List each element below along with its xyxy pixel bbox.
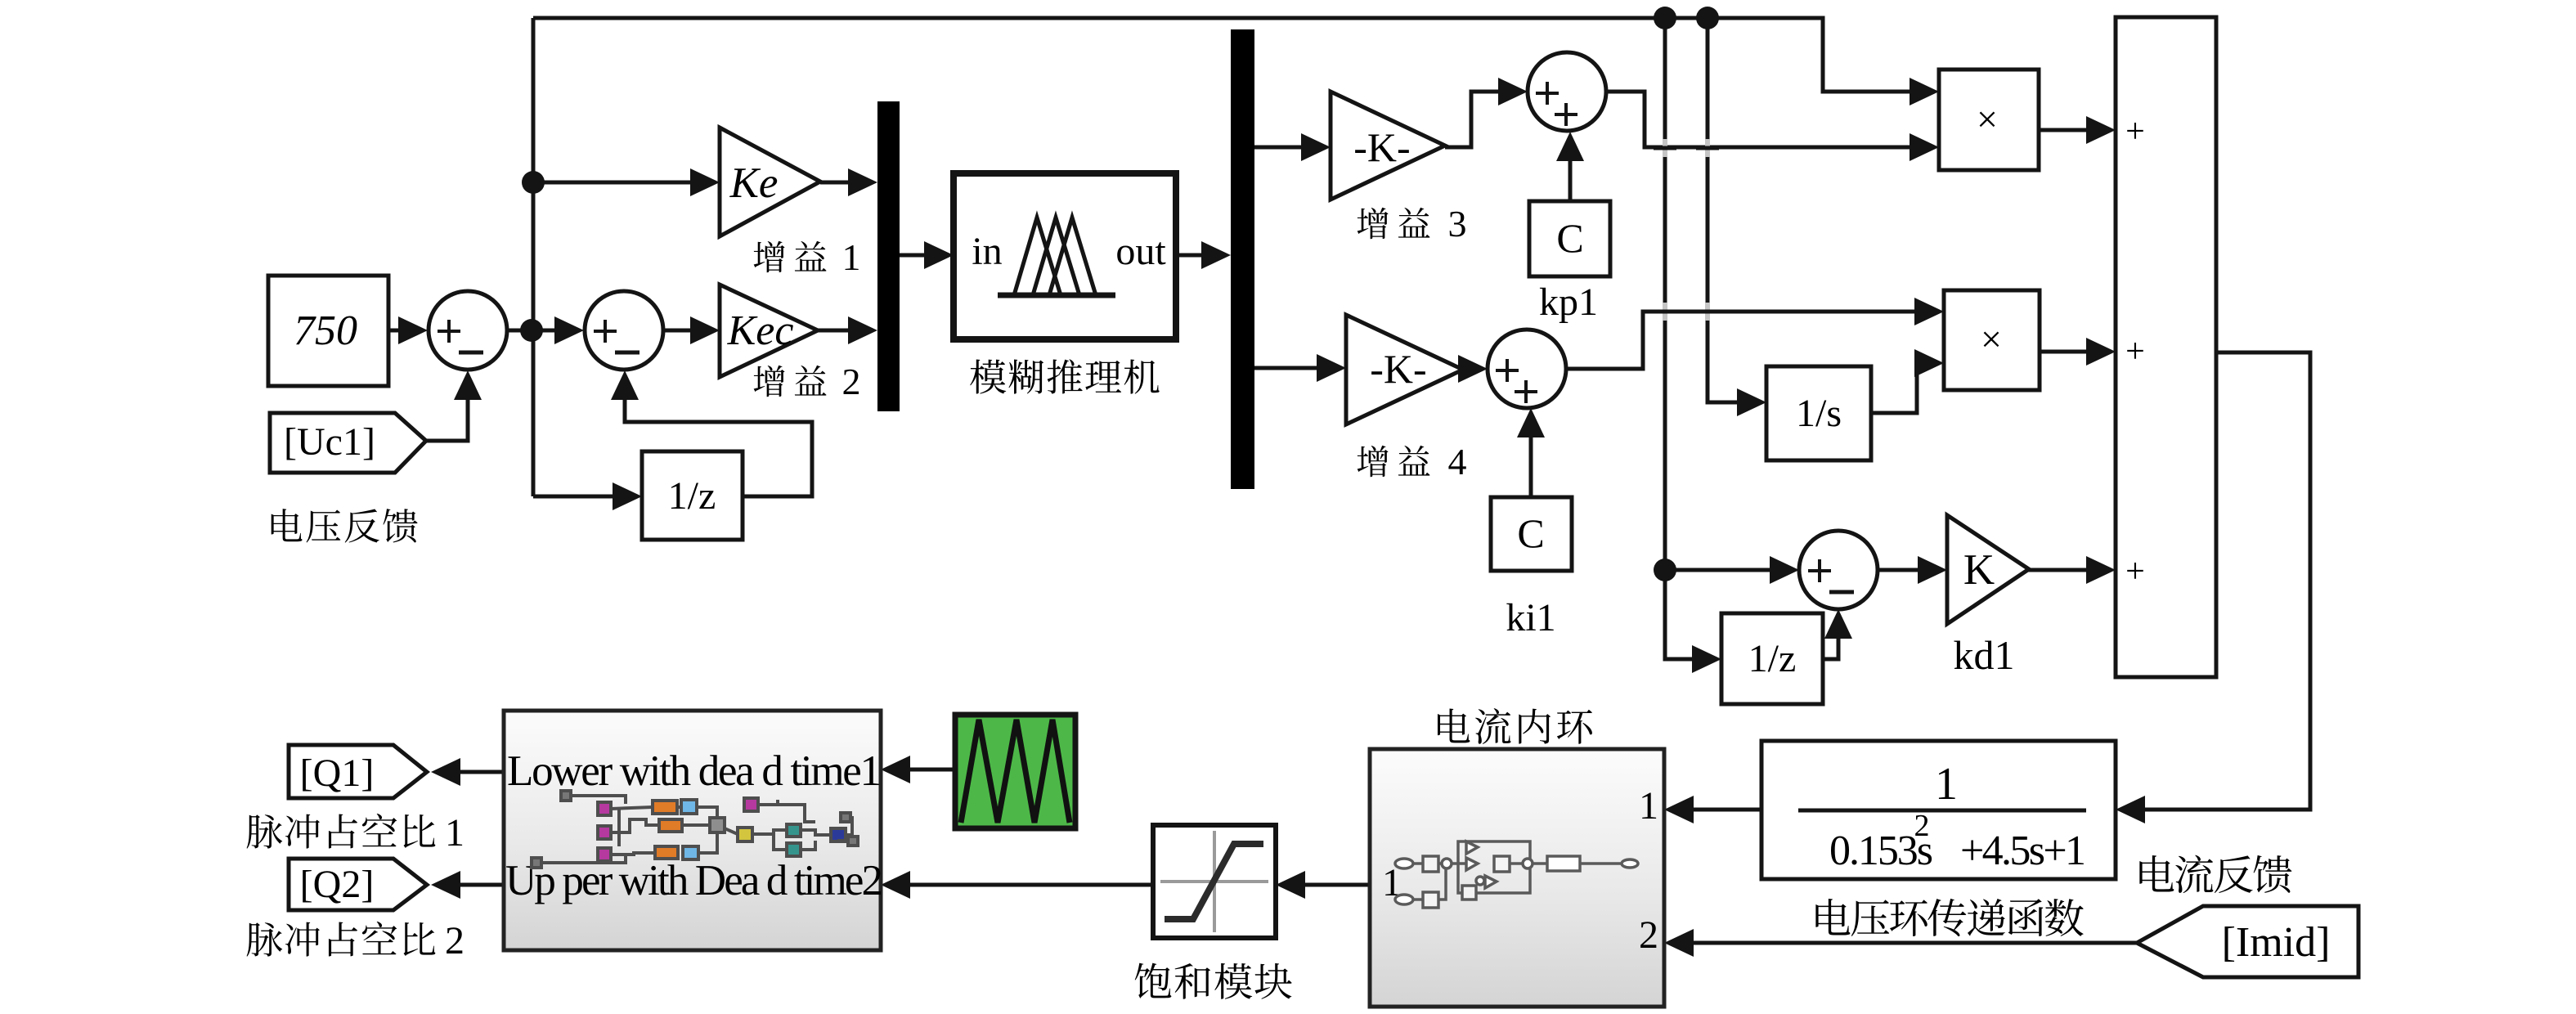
demux bar bbox=[1231, 29, 1254, 489]
node: junction kd branch bbox=[1654, 559, 1676, 581]
wire: 750 to sum1 bbox=[388, 329, 409, 333]
sum kd bbox=[1799, 531, 1878, 609]
svg-text:-K-: -K- bbox=[1353, 124, 1410, 170]
wire: mux to fuzzy block bbox=[900, 253, 931, 258]
wire: big sum output down to transfer function bbox=[2143, 352, 2310, 810]
label 电流内环 bbox=[1438, 708, 1470, 743]
wire: [Uc1] to sum1 minus input bbox=[426, 393, 468, 441]
wire: gain3 to sum kp bbox=[1445, 92, 1505, 147]
svg-text:4: 4 bbox=[1448, 441, 1467, 482]
svg-text:×: × bbox=[1981, 318, 2002, 360]
wire: triangle wave to PWM subsystem input 1 bbox=[905, 768, 955, 772]
wire: product2 to big sum bbox=[2040, 350, 2093, 354]
current loop inner sketch bbox=[1395, 841, 1638, 908]
unit delay 1/z bbox=[642, 451, 743, 540]
svg-text:1: 1 bbox=[1935, 759, 1958, 810]
product block 1 bbox=[1939, 70, 2039, 170]
svg-text:C: C bbox=[1517, 510, 1544, 556]
svg-text:+: + bbox=[2125, 113, 2145, 150]
big sum block bbox=[2116, 17, 2216, 677]
wire: 1/s to product2 lower input bbox=[1871, 363, 1923, 413]
gain 4 (-K-) bbox=[1346, 315, 1463, 424]
sum ki bbox=[1488, 330, 1566, 408]
svg-text:ki1: ki1 bbox=[1506, 596, 1555, 639]
svg-text:+: + bbox=[2125, 553, 2145, 590]
wire: sum ki out to product2 upper input bbox=[1566, 312, 1921, 369]
wire: junction1 down to sum kd and 1/z bbox=[1665, 18, 1699, 659]
svg-text:[Q1]: [Q1] bbox=[300, 752, 375, 795]
goto tag [Q1] bbox=[289, 745, 427, 798]
svg-text:1: 1 bbox=[1639, 784, 1658, 828]
wire: demux out1 to gain3 bbox=[1254, 146, 1308, 150]
wire: gain K to big sum bbox=[2027, 568, 2093, 572]
wire: demux out2 to gain4 bbox=[1254, 366, 1323, 370]
wire: saturation to PWM subsystem input 2 bbox=[905, 883, 1153, 887]
wire: e to gain Ke bbox=[533, 181, 695, 185]
from tag [Imid] bbox=[2137, 906, 2358, 977]
wire: sum1 to sum2 bbox=[507, 329, 564, 333]
svg-text:+4.5s+1: +4.5s+1 bbox=[1960, 828, 2086, 874]
wire: transfer function to current loop input 1 bbox=[1690, 808, 1761, 812]
svg-text:K: K bbox=[1963, 546, 1995, 594]
saturation block bbox=[1153, 825, 1276, 938]
wire: gain4 to sum ki bbox=[1463, 367, 1468, 371]
svg-text:[Q2]: [Q2] bbox=[300, 863, 375, 906]
gain 3 (-K-) bbox=[1331, 92, 1445, 200]
label 脉冲占空比 1 bbox=[247, 814, 283, 848]
svg-text:kp1: kp1 bbox=[1539, 280, 1598, 324]
sum kp bbox=[1528, 52, 1606, 131]
svg-text:×: × bbox=[1977, 98, 1998, 140]
wire: PWM out2 to goto [Q2] bbox=[456, 883, 504, 887]
svg-text:kd1: kd1 bbox=[1954, 632, 2015, 678]
gain Kec bbox=[720, 285, 818, 377]
wire: junction2 down to integrator 1/s bbox=[1708, 18, 1744, 402]
wire: top distribution line of error signal e bbox=[533, 18, 1914, 92]
wire: constant C kp1 to sum kp bbox=[1568, 154, 1573, 201]
wire: vertical e branch line bbox=[532, 18, 536, 496]
svg-text:1/z: 1/z bbox=[668, 474, 716, 518]
node: junction on top line 2 bbox=[1696, 7, 1719, 29]
integrator 1/s bbox=[1766, 366, 1871, 460]
label 增益 3 bbox=[1358, 208, 1389, 239]
wire: e down to unit delay 1/z bbox=[533, 495, 619, 499]
svg-text:Kec: Kec bbox=[727, 307, 794, 354]
PWM inner sketch bbox=[532, 791, 858, 868]
wire: sum2 to gain Kec bbox=[663, 329, 699, 333]
node: junction e to Ke bbox=[522, 171, 545, 194]
label 电压反馈 bbox=[272, 509, 303, 541]
wire: Kec to mux bbox=[818, 329, 855, 333]
fuzzy membership function icon bbox=[998, 293, 1115, 298]
label 脉冲占空比 2 bbox=[247, 922, 283, 956]
svg-text:2: 2 bbox=[1639, 913, 1658, 957]
constant C ki1 bbox=[1491, 497, 1572, 571]
svg-text:2: 2 bbox=[445, 919, 464, 962]
wire: current loop output to saturation bbox=[1300, 883, 1370, 887]
label 电压环传递函数 bbox=[1815, 899, 1850, 935]
gain Ke bbox=[720, 128, 820, 236]
svg-text:750: 750 bbox=[294, 307, 357, 354]
svg-text:1: 1 bbox=[445, 811, 464, 855]
svg-text:[Uc1]: [Uc1] bbox=[284, 420, 375, 464]
label 增益 1 bbox=[754, 241, 785, 272]
wire: sum kp out to product1 lower input bbox=[1606, 92, 1917, 147]
sum S2 bbox=[585, 291, 663, 370]
svg-text:Lower with dea d time1: Lower with dea d time1 bbox=[507, 747, 882, 795]
wire: product1 upper input arrowhead bbox=[1910, 78, 1939, 105]
svg-text:+: + bbox=[2125, 333, 2145, 370]
wire: sum kd to gain K bbox=[1878, 568, 1924, 572]
svg-text:2: 2 bbox=[842, 361, 861, 402]
wire crossing bridges bbox=[1663, 139, 1667, 157]
label 饱和模块 bbox=[1135, 963, 1172, 998]
goto tag [Q2] bbox=[289, 859, 427, 910]
label 模糊推理机 bbox=[970, 359, 1006, 393]
svg-text:2: 2 bbox=[1914, 809, 1930, 843]
svg-text:1/s: 1/s bbox=[1796, 392, 1842, 435]
svg-text:out: out bbox=[1115, 230, 1166, 273]
wire: constant C ki1 to sum ki bbox=[1529, 430, 1533, 497]
wire: 1/z feedback to sum2 minus input bbox=[625, 393, 812, 496]
current inner loop subsystem bbox=[1370, 749, 1664, 1007]
wire: fuzzy block to demux bbox=[1176, 253, 1209, 258]
node: junction on top line 1 bbox=[1654, 7, 1676, 29]
wire: 1/z2 feedback to sum kd minus input bbox=[1823, 631, 1838, 659]
wire: Ke to mux bbox=[820, 181, 855, 185]
label 电流反馈 bbox=[2139, 855, 2174, 892]
svg-text:[Imid]: [Imid] bbox=[2222, 919, 2331, 966]
wire: product1 to big sum bbox=[2039, 128, 2093, 132]
label 增益 2 bbox=[754, 366, 785, 397]
svg-text:1/z: 1/z bbox=[1748, 637, 1797, 680]
triangle wave source block bbox=[955, 715, 1075, 828]
gain K kd1 bbox=[1947, 515, 2029, 624]
svg-text:Ke: Ke bbox=[729, 159, 779, 207]
svg-text:C: C bbox=[1556, 215, 1583, 261]
svg-text:in: in bbox=[972, 230, 1002, 273]
constant block 750 bbox=[268, 276, 388, 386]
svg-text:3: 3 bbox=[1448, 203, 1467, 245]
product block 2 bbox=[1944, 290, 2040, 390]
svg-text:-K-: -K- bbox=[1370, 346, 1426, 392]
fuzzy inference engine block bbox=[954, 173, 1176, 339]
sum S1 bbox=[429, 291, 507, 370]
mux bar bbox=[877, 101, 900, 411]
constant C kp1 bbox=[1529, 201, 1610, 276]
svg-text:1: 1 bbox=[842, 236, 861, 278]
unit delay 1/z (2) bbox=[1721, 613, 1823, 704]
node: junction after sum1 bbox=[520, 319, 543, 342]
wire: [Imid] to current loop input 2 bbox=[1690, 941, 2137, 945]
voltage loop transfer function block bbox=[1761, 741, 2116, 879]
PWM dead time subsystem bbox=[504, 711, 881, 950]
wire: junction to sum kd bbox=[1665, 568, 1776, 572]
wire: PWM out1 to goto [Q1] bbox=[456, 770, 504, 774]
goto tag [Uc1] bbox=[270, 413, 426, 473]
label 增益 4 bbox=[1358, 446, 1389, 477]
